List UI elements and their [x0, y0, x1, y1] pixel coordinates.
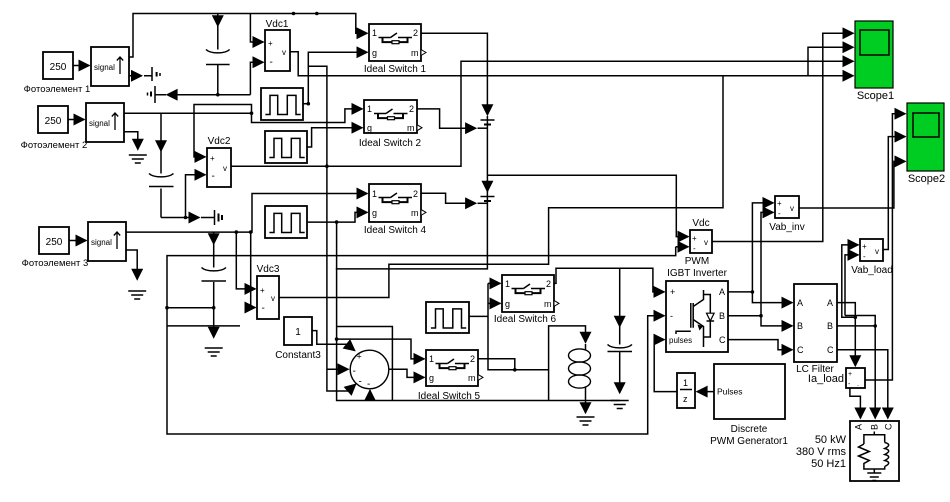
svg-text:g: g: [367, 123, 372, 133]
svg-text:Фотоэлемент 1: Фотоэлемент 1: [24, 84, 91, 95]
svg-text:PWM Generator1: PWM Generator1: [710, 436, 788, 447]
svg-text:g: g: [505, 299, 510, 309]
svg-text:B: B: [797, 321, 803, 331]
svg-text:signal: signal: [91, 238, 112, 247]
svg-text:v: v: [223, 164, 227, 173]
svg-text:g: g: [372, 208, 377, 218]
svg-text:A: A: [854, 424, 864, 430]
svg-text:m: m: [468, 373, 476, 383]
svg-text:-: -: [670, 311, 673, 321]
svg-text:v: v: [282, 48, 286, 57]
svg-text:v: v: [271, 294, 275, 303]
svg-text:Ideal Switch 4: Ideal Switch 4: [364, 225, 427, 236]
svg-text:v: v: [790, 204, 794, 213]
svg-text:250: 250: [46, 237, 63, 248]
svg-text:B: B: [870, 424, 880, 430]
svg-text:380 V rms: 380 V rms: [796, 446, 847, 458]
svg-text:250: 250: [45, 116, 62, 127]
svg-text:-: -: [367, 379, 370, 390]
svg-text:+: +: [670, 287, 675, 297]
svg-text:m: m: [407, 123, 415, 133]
svg-text:50 Hz1: 50 Hz1: [811, 458, 846, 470]
svg-text:+: +: [268, 39, 273, 48]
svg-text:Ideal Switch 2: Ideal Switch 2: [359, 138, 422, 149]
svg-text:signal: signal: [89, 119, 110, 128]
svg-text:Vab_load: Vab_load: [851, 265, 893, 276]
svg-text:+: +: [777, 199, 782, 208]
svg-text:1: 1: [505, 279, 510, 289]
svg-text:Vdc: Vdc: [692, 218, 709, 229]
svg-text:+: +: [210, 154, 215, 163]
svg-text:2: 2: [470, 354, 475, 364]
svg-text:Pulses: Pulses: [717, 387, 743, 397]
svg-text:Vab_inv: Vab_inv: [769, 222, 804, 233]
svg-text:+: +: [357, 352, 362, 362]
svg-text:-: -: [778, 209, 781, 218]
svg-text:Vdc3: Vdc3: [257, 264, 280, 275]
svg-text:.: .: [857, 381, 859, 388]
svg-text:C: C: [827, 345, 834, 355]
svg-text:+: +: [862, 242, 867, 251]
svg-text:Ideal Switch 6: Ideal Switch 6: [494, 314, 557, 325]
svg-text:-: -: [212, 171, 215, 182]
svg-text:1: 1: [429, 354, 434, 364]
svg-text:-: -: [863, 252, 866, 261]
svg-text:1: 1: [367, 104, 372, 114]
svg-text:250: 250: [50, 62, 67, 73]
svg-text:B: B: [827, 321, 833, 331]
svg-text:v: v: [875, 247, 879, 256]
svg-text:2: 2: [413, 28, 418, 38]
svg-text:A: A: [719, 287, 725, 297]
svg-text:signal: signal: [94, 63, 115, 72]
svg-text:1: 1: [372, 189, 377, 199]
svg-text:-: -: [693, 244, 696, 253]
svg-text:Фотоэлемент 2: Фотоэлемент 2: [21, 140, 88, 151]
svg-text:-: -: [353, 366, 356, 377]
svg-text:2: 2: [413, 189, 418, 199]
svg-text:Vdc1: Vdc1: [266, 19, 289, 30]
svg-text:1: 1: [683, 378, 688, 388]
svg-text:Scope1: Scope1: [857, 90, 894, 102]
svg-text:-: -: [270, 57, 273, 68]
svg-text:Scope2: Scope2: [908, 173, 945, 185]
svg-text:Ideal Switch 5: Ideal Switch 5: [418, 391, 481, 402]
svg-text:m: m: [411, 208, 419, 218]
svg-text:Constant3: Constant3: [275, 350, 321, 361]
svg-text:m: m: [411, 48, 419, 58]
svg-text:Ia_load: Ia_load: [808, 373, 844, 385]
svg-text:A: A: [827, 298, 833, 308]
svg-text:IGBT Inverter: IGBT Inverter: [667, 268, 728, 279]
svg-text:PWM: PWM: [685, 256, 709, 267]
svg-text:Discrete: Discrete: [731, 424, 768, 435]
svg-text:+: +: [848, 371, 852, 378]
svg-text:g: g: [429, 373, 434, 383]
svg-text:-: -: [262, 303, 265, 314]
svg-text:m: m: [544, 299, 552, 309]
svg-text:2: 2: [409, 104, 414, 114]
svg-text:pulses: pulses: [669, 336, 692, 345]
svg-text:B: B: [719, 311, 725, 321]
svg-text:C: C: [719, 335, 726, 345]
svg-text:A: A: [797, 298, 803, 308]
svg-text:z: z: [683, 394, 688, 404]
svg-text:v: v: [704, 238, 708, 247]
svg-text:1: 1: [372, 28, 377, 38]
svg-text:+: +: [260, 286, 265, 295]
svg-text:C: C: [797, 345, 804, 355]
svg-text:50 kW: 50 kW: [815, 434, 847, 446]
svg-text:-: -: [359, 377, 362, 388]
svg-text:Фотоэлемент 3: Фотоэлемент 3: [22, 258, 89, 269]
svg-text:1: 1: [295, 327, 301, 338]
svg-text:C: C: [884, 423, 894, 430]
svg-text:Ideal Switch 1: Ideal Switch 1: [364, 64, 427, 75]
svg-text:2: 2: [546, 279, 551, 289]
svg-text:Vdc2: Vdc2: [208, 136, 231, 147]
svg-text:g: g: [372, 48, 377, 58]
svg-text:+: +: [692, 234, 697, 243]
